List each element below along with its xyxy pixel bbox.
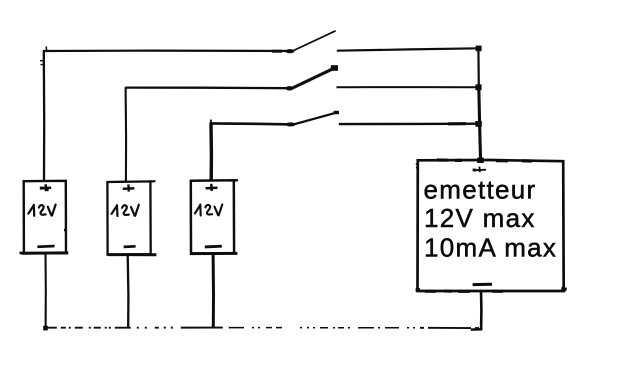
battery B2 body (107, 181, 150, 254)
switch S1 heavy dash on wire before pivot (272, 50, 282, 53)
emetteur + polarity mark (474, 167, 486, 173)
wire: horizontal from node over B2 to switch S2 pivot (125, 86, 290, 89)
wire: B1 - terminal down to ground rail (44, 253, 46, 327)
switch S2 pivot contact (286, 86, 294, 90)
wire: junction vertical bus down to emetteur + terminal (477, 48, 480, 87)
battery B2 + polarity mark (123, 184, 135, 191)
wire: emetteur - terminal down to ground rail (480, 291, 483, 329)
svg-text:12V max: 12V max (424, 203, 536, 233)
wire: small scan tick above top-left corner (45, 47, 47, 52)
wire: small scan tick left of B1 vertical (40, 61, 44, 65)
switch S2 lever tip blob (331, 65, 338, 71)
emetteur box U1 (418, 160, 564, 291)
battery B1 - polarity mark (37, 245, 54, 249)
emetteur wire entry blob at top edge (477, 158, 484, 163)
battery B3 bottom edge heavy stroke (191, 252, 237, 255)
battery B1 + polarity mark (41, 184, 51, 190)
emetteur box corner blobs (416, 288, 567, 290)
battery B3 top edge overshoot (234, 179, 239, 182)
wire: battery B3 + terminal up (vertical, heavy) (209, 123, 213, 180)
wire: B3 - terminal down to ground rail (212, 254, 215, 328)
switch S2 lever (open blade, heavy stroke) (292, 69, 333, 89)
svg-text:emetteur: emetteur (424, 174, 537, 204)
switch S3 pivot contact (286, 122, 296, 126)
junction blob at B1 wire meets rail (43, 326, 48, 331)
emetteur + mark left blob (473, 169, 477, 172)
switch S3 lever tip blob (334, 111, 339, 114)
switch S1 pivot contact (285, 49, 294, 53)
battery B1 + mark left blob (40, 187, 44, 190)
emetteur box top edge scan blobs (437, 160, 532, 161)
battery B3 + polarity mark (206, 184, 218, 191)
junction node C dot (S3 line meets bus) (475, 121, 481, 127)
battery B1 corner scan blobs (20, 230, 67, 253)
wire: ground return rail left section (broken scan line) (45, 327, 230, 329)
battery B3 body (191, 180, 234, 253)
wire: B2 - terminal down to ground rail (127, 255, 130, 328)
emetteur box left-edge scan tick (416, 164, 418, 168)
wire: battery B1 + terminal up to switch S1 (vertical) (43, 51, 46, 182)
wire: foot of emetteur ground stub (471, 328, 483, 331)
battery B2 bottom edge heavy stroke (108, 253, 157, 256)
wire: ground return rail right section (dash-dot scan line) (230, 327, 420, 329)
switch S3 lever (open blade) (294, 113, 336, 125)
wire: switch S3 output to junction vertical (horizontal) (339, 122, 479, 125)
battery B2 top edge overshoot (150, 180, 156, 183)
wire3 heavy dash near junction (448, 122, 466, 125)
emetteur box bottom edge scan blobs (425, 290, 503, 293)
battery B3 - polarity mark (205, 245, 222, 249)
battery B1 body (24, 181, 66, 254)
switch S1 lever (open blade) (293, 31, 336, 51)
wire: scan tick above B3 corner (210, 120, 212, 124)
wire: battery B2 + terminal up (vertical) (125, 87, 128, 182)
wire: top horizontal from node over B1 to switch S1 pivot (43, 49, 292, 52)
emetteur - polarity mark (473, 283, 492, 286)
battery B1 + mark lower blob (45, 189, 49, 192)
battery B3 label 12V (handwritten) (195, 204, 222, 215)
junction node B dot (S2 line meets bus) (475, 84, 481, 90)
battery B2 label 12V (handwritten) (112, 205, 139, 216)
svg-text:10mA max: 10mA max (424, 233, 557, 263)
battery B2 - polarity mark (124, 245, 136, 248)
wire: switch S1 output to junction node A (horizontal) (337, 48, 479, 50)
junction node A dot (S1 line meets bus) (476, 46, 482, 52)
battery B1 bottom edge heavy stroke (22, 251, 69, 254)
battery B1 label 12V (handwritten) (28, 205, 55, 216)
wire: switch S2 output to junction vertical (horizontal) (337, 86, 479, 88)
wire: horizontal from node over B3 to switch S3 pivot (210, 123, 294, 124)
